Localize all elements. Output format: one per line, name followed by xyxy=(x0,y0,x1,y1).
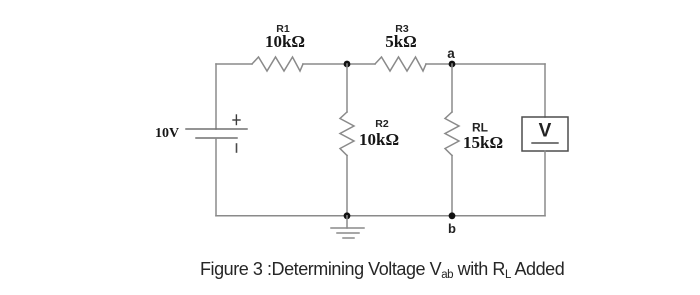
node b dot xyxy=(449,212,456,219)
resistor R2 xyxy=(340,112,354,156)
wire: RL branch upper lead xyxy=(451,64,453,112)
node a dot xyxy=(449,61,456,68)
svg-text:a: a xyxy=(447,46,455,61)
wire: RL branch lower lead xyxy=(451,156,453,216)
resistor R1 xyxy=(252,57,303,71)
node junction dot (R1/R3/R2) xyxy=(344,61,351,68)
wire: voltmeter to bottom-right corner xyxy=(544,151,546,216)
battery 10V: top plate xyxy=(186,128,247,130)
junction dot at ground node xyxy=(344,212,351,219)
voltmeter underline xyxy=(532,142,558,144)
wire: top-left horizontal lead from battery to R1 xyxy=(216,63,252,65)
ground xyxy=(331,216,364,238)
svg-text:R3: R3 xyxy=(395,23,409,35)
wire: R1 to R3 segment xyxy=(303,63,375,65)
svg-text:15kΩ: 15kΩ xyxy=(463,133,503,152)
svg-text:10kΩ: 10kΩ xyxy=(359,130,399,149)
battery 10V: bottom plate xyxy=(196,137,237,139)
wire: R2 branch lower lead xyxy=(346,156,348,216)
svg-text:V: V xyxy=(539,121,552,142)
resistor RL xyxy=(445,112,459,156)
wire: R2 branch upper lead xyxy=(346,64,348,112)
svg-text:b: b xyxy=(448,221,456,236)
resistor R3 xyxy=(375,57,426,71)
wire: left vertical from top wire to battery xyxy=(215,64,217,129)
caption: Figure 3 xyxy=(200,259,564,280)
svg-text:10V: 10V xyxy=(155,126,179,141)
battery - sign (vertical tick) xyxy=(236,144,238,152)
wire: R3 to top-right corner xyxy=(426,63,545,65)
wire: battery to bottom-left corner xyxy=(215,138,217,216)
voltmeter U1 box xyxy=(522,117,568,151)
wire: bottom horizontal xyxy=(216,215,545,217)
svg-text:R1: R1 xyxy=(276,23,290,35)
wire: right vertical to voltmeter xyxy=(544,64,546,117)
svg-text:R2: R2 xyxy=(375,118,389,130)
battery + sign xyxy=(233,115,240,125)
